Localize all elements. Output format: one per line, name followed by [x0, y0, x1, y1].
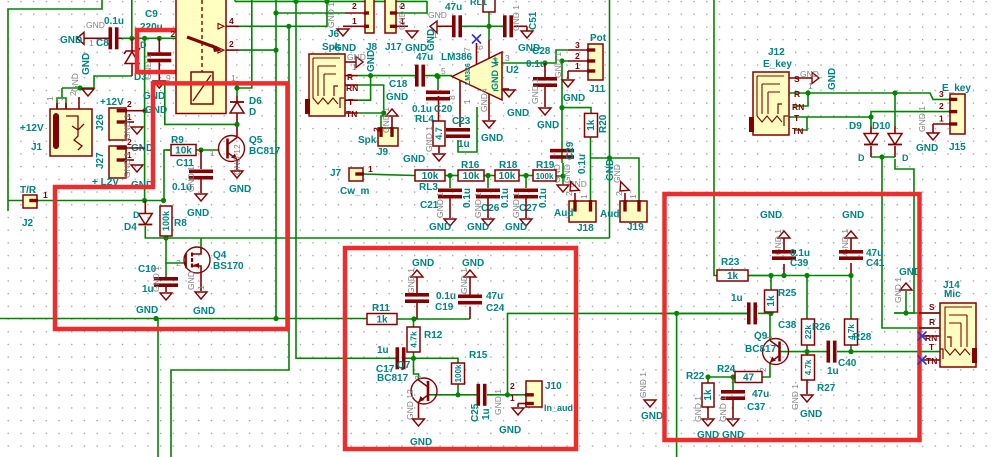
capacitor C25	[477, 384, 481, 406]
svg-text:1k: 1k	[766, 295, 777, 307]
junction	[455, 392, 460, 397]
wire Q4 drain	[200, 238, 202, 247]
wire vertical x=296 to C17	[296, 1, 396, 358]
resistor R25	[765, 290, 778, 312]
connector J10 In_aud	[526, 381, 542, 407]
wire main audio bus y=318.5	[0, 318, 367, 320]
wire R20 bottom to J18 pin1	[590, 137, 592, 201]
svg-text:GND 1: GND 1	[459, 268, 469, 294]
svg-text:R11: R11	[372, 303, 390, 314]
junction	[485, 173, 490, 178]
svg-text:R22: R22	[686, 371, 705, 382]
svg-text:2: 2	[510, 381, 515, 391]
svg-text:C25: C25	[470, 403, 481, 422]
wire Spk R to T tie	[358, 76, 370, 101]
svg-text:J10: J10	[545, 381, 562, 392]
wire R20 top feed	[562, 108, 591, 114]
svg-text:R28: R28	[853, 332, 872, 343]
ground at J15 pin1	[927, 133, 939, 140]
svg-text:GND 1: GND 1	[473, 192, 483, 218]
junction	[324, 0, 329, 4]
svg-text:2: 2	[564, 191, 574, 196]
svg-text:1: 1	[510, 393, 515, 403]
diode D4	[144, 201, 146, 214]
wire C19 lead	[416, 303, 418, 319]
capacitor C20	[426, 91, 450, 95]
wire relay pin2 row	[239, 49, 276, 51]
junction	[411, 356, 416, 361]
svg-text:3: 3	[575, 40, 580, 50]
svg-text:J9: J9	[377, 147, 389, 158]
svg-text:100k: 100k	[161, 210, 171, 231]
svg-text:BC817: BC817	[745, 344, 777, 355]
svg-text:R25: R25	[778, 288, 797, 299]
svg-text:1u: 1u	[458, 139, 470, 150]
junction	[879, 154, 884, 159]
junction	[542, 60, 547, 65]
capacitor C40	[827, 341, 831, 363]
svg-text:R12: R12	[424, 330, 443, 341]
connector J26	[109, 108, 126, 140]
no-connect Mic TN	[923, 359, 940, 361]
svg-text:R23: R23	[721, 257, 740, 268]
svg-text:GND 1: GND 1	[638, 372, 648, 398]
wire C37 top	[732, 377, 734, 390]
svg-text:10k: 10k	[422, 171, 439, 182]
svg-text:Q7: Q7	[397, 360, 411, 371]
connector J8	[365, 0, 374, 33]
svg-text:GND: GND	[403, 154, 425, 165]
connector J7 Cw_m	[349, 168, 363, 181]
wire D3 bottom to GND	[94, 76, 132, 88]
wire J15 pin2 to T net	[871, 112, 950, 117]
svg-text:GND: GND	[426, 29, 437, 51]
svg-text:Cw_m: Cw_m	[340, 186, 370, 197]
svg-text:7: 7	[462, 47, 472, 52]
wire J1 pins bracket	[57, 98, 66, 109]
svg-text:GND 1: GND 1	[406, 268, 416, 294]
ground at C10	[160, 293, 172, 300]
svg-text:GND: GND	[800, 69, 819, 79]
svg-text:T: T	[348, 97, 354, 107]
wire LM386 pin6 supply	[488, 26, 490, 40]
svg-text:GND 1: GND 1	[493, 389, 503, 415]
svg-text:3: 3	[939, 89, 944, 99]
svg-text:2: 2	[229, 39, 234, 49]
svg-text:1u: 1u	[377, 345, 389, 356]
svg-text:1u: 1u	[481, 408, 492, 420]
wire D10 top lead	[894, 93, 896, 126]
wire Spk RN to TN tie	[345, 84, 359, 86]
svg-text:4: 4	[229, 16, 234, 26]
resistor RL1	[483, 0, 495, 12]
relay switch arm	[187, 37, 217, 48]
svg-text:1: 1	[352, 16, 357, 26]
svg-text:GND: GND	[412, 258, 434, 269]
wire R26 bottom to R27	[806, 345, 808, 355]
relay pins	[226, 25, 239, 27]
svg-text:5: 5	[441, 66, 446, 76]
svg-text:GND 1: GND 1	[718, 396, 728, 422]
svg-text:T: T	[794, 113, 800, 123]
svg-text:0.1u: 0.1u	[500, 188, 511, 208]
connector J6 ground	[337, 29, 349, 36]
svg-text:C27: C27	[519, 203, 538, 214]
ground at C26	[482, 219, 494, 226]
svg-text:J11: J11	[589, 84, 606, 95]
junction	[142, 108, 147, 113]
svg-text:2: 2	[352, 1, 357, 11]
wire x=251.8 from top to D6 net	[237, 0, 252, 88]
svg-text:GND4: GND4	[479, 88, 489, 112]
svg-text:GND: GND	[760, 210, 782, 221]
svg-text:U2: U2	[506, 65, 519, 76]
wire C10 tap	[165, 263, 167, 277]
svg-text:D: D	[902, 153, 909, 163]
wire E_key R-RN tie	[794, 93, 808, 106]
ground at C29/R19	[557, 185, 569, 192]
svg-text:GND: GND	[186, 271, 196, 290]
capacitor C29	[550, 149, 574, 153]
svg-text:1u: 1u	[731, 293, 743, 304]
svg-text:GND 1: GND 1	[326, 2, 336, 28]
svg-text:GND 1: GND 1	[397, 4, 407, 30]
wire Spk TN row to J9	[345, 112, 359, 114]
svg-text:0.1u: 0.1u	[526, 59, 546, 70]
svg-text:Q5: Q5	[249, 135, 263, 146]
svg-text:1: 1	[764, 335, 774, 340]
svg-text:C28: C28	[532, 46, 551, 57]
wire resistor chain row	[445, 175, 458, 177]
svg-text:−: −	[493, 86, 499, 97]
junction	[768, 311, 773, 316]
ground at J27 pin1	[131, 165, 143, 172]
svg-text:J6: J6	[328, 29, 340, 40]
wire R20 row join	[591, 157, 610, 159]
svg-text:GND 1: GND 1	[530, 78, 540, 104]
resistor R12	[407, 327, 420, 352]
wire top-left corner net	[8, 0, 102, 211]
svg-text:0.1u: 0.1u	[577, 154, 588, 174]
svg-text:1: 1	[575, 61, 580, 71]
ground at J26 pin1	[131, 127, 143, 134]
svg-text:1k: 1k	[586, 119, 597, 131]
svg-text:TN: TN	[926, 356, 937, 366]
svg-text:C18: C18	[389, 79, 408, 90]
svg-text:J19: J19	[627, 222, 644, 233]
svg-text:D9: D9	[849, 121, 862, 132]
svg-text:LM386: LM386	[441, 52, 473, 63]
wire R25 column	[770, 276, 772, 291]
wire E_key T-TN tie	[794, 117, 807, 130]
resistor R8	[160, 206, 172, 236]
wire Q7 collector	[414, 358, 419, 380]
svg-text:R8: R8	[174, 218, 187, 229]
wire C41 lead	[850, 263, 852, 276]
wire J2 row y=200.5	[8, 200, 37, 202]
svg-text:D10: D10	[872, 121, 891, 132]
svg-text:Spk: Spk	[358, 135, 377, 146]
transistor Q7 BC817	[411, 378, 437, 404]
connector J2	[23, 195, 37, 208]
junction	[411, 316, 416, 321]
diode D3 zener	[131, 38, 133, 51]
ground at J18 pin2	[566, 182, 579, 195]
svg-text:J2: J2	[22, 218, 34, 229]
junction	[273, 316, 278, 321]
svg-text:1: 1	[368, 164, 373, 174]
wire Q9 collector	[769, 313, 771, 340]
junction	[234, 85, 239, 90]
wire C25 to J10	[487, 394, 526, 396]
junction	[804, 349, 809, 354]
ground at Q5 emitter	[231, 171, 243, 178]
svg-text:R26: R26	[812, 322, 831, 333]
junction	[293, 0, 298, 4]
svg-text:1: 1	[462, 99, 472, 104]
svg-text:C9: C9	[145, 9, 158, 20]
connector J19 Aud	[620, 201, 647, 222]
svg-text:R27: R27	[817, 383, 836, 394]
svg-text:C29: C29	[565, 141, 576, 160]
wire R15 feed	[414, 358, 459, 363]
svg-text:1: 1	[352, 62, 357, 72]
svg-text:GND 1: GND 1	[122, 152, 132, 178]
svg-text:R: R	[794, 89, 800, 99]
svg-text:GND 1: GND 1	[790, 384, 800, 410]
svg-text:1: 1	[579, 194, 589, 199]
svg-text:J1: J1	[31, 142, 43, 153]
svg-text:GND 1: GND 1	[917, 106, 927, 132]
wire right box input row	[660, 312, 748, 314]
svg-text:S: S	[929, 302, 935, 312]
wire vertical x=676 to bottom edge	[676, 313, 678, 457]
junction	[848, 273, 853, 278]
svg-text:GND 1: GND 1	[186, 166, 196, 192]
wire R26 top	[806, 276, 808, 320]
wire C51 right to GND	[514, 25, 527, 27]
svg-text:0.1u: 0.1u	[436, 291, 456, 302]
svg-text:10k: 10k	[499, 171, 516, 182]
svg-text:GND: GND	[193, 306, 215, 317]
junction	[273, 10, 278, 15]
svg-text:RN: RN	[346, 83, 358, 93]
highlight box right (mic amp)	[665, 194, 920, 440]
svg-text:GND: GND	[916, 143, 938, 154]
svg-text:100k: 100k	[454, 364, 463, 382]
svg-text:GND: GND	[842, 210, 864, 221]
connector J1 barrel jack	[50, 109, 92, 156]
svg-text:GND: GND	[537, 120, 559, 131]
wire Q9 emitter to R24	[762, 363, 770, 378]
capacitor C19	[405, 293, 429, 297]
svg-text:1: 1	[196, 285, 206, 290]
resistor R20	[585, 113, 598, 137]
wire J17 pin2 to top bus	[396, 1, 427, 13]
op-amp U2 LM386	[452, 52, 502, 100]
capacitor C26	[476, 189, 500, 193]
junction	[161, 198, 166, 203]
svg-text:C19: C19	[435, 302, 454, 313]
svg-text:Aud: Aud	[554, 208, 573, 219]
junction	[435, 74, 440, 79]
svg-text:GND 1: GND 1	[553, 52, 563, 78]
resistor R28	[845, 319, 858, 345]
svg-text:GND: GND	[505, 222, 527, 233]
transistor Q9 BC817	[763, 339, 789, 365]
svg-text:1k: 1k	[727, 271, 739, 282]
svg-text:T: T	[929, 342, 935, 352]
capacitor C27	[514, 189, 538, 193]
wire LM386 pin8 to C23	[459, 80, 461, 127]
svg-text:GND: GND	[386, 92, 408, 103]
svg-text:GND 12: GND 12	[405, 389, 415, 420]
svg-text:47u: 47u	[445, 2, 462, 13]
junction	[781, 273, 786, 278]
svg-text:4.7k: 4.7k	[409, 331, 419, 348]
wire R12 column	[413, 319, 415, 327]
svg-text:GND: GND	[499, 425, 521, 436]
jack J12-spk (Spk input jack)	[309, 54, 345, 116]
wire coil pin1 / D6 top	[213, 82, 226, 84]
svg-text:GND: GND	[429, 222, 451, 233]
svg-text:GND 1: GND 1	[435, 192, 445, 218]
svg-text:RL4: RL4	[415, 114, 434, 125]
ground at C21	[444, 219, 456, 226]
wire vertical x=714 from top to R23	[714, 0, 717, 276]
relay coil	[191, 72, 213, 104]
ground at R27	[801, 395, 813, 402]
ground at Q4 source	[195, 292, 207, 299]
svg-text:2: 2	[575, 51, 580, 61]
connector J18 Aud	[569, 201, 596, 222]
junction	[273, 48, 278, 53]
svg-text:BC817: BC817	[249, 146, 281, 157]
junction	[77, 85, 82, 90]
resistor R26	[802, 319, 815, 345]
svg-text:C37: C37	[747, 402, 766, 413]
svg-text:R15: R15	[469, 350, 488, 361]
svg-text:D4: D4	[124, 222, 137, 233]
svg-text:GND: GND	[81, 53, 92, 75]
svg-text:0.1u: 0.1u	[538, 188, 549, 208]
ground at C9	[153, 81, 165, 88]
svg-text:J17: J17	[385, 42, 402, 53]
svg-text:BS170: BS170	[213, 261, 244, 272]
wire RL1 bottom	[488, 12, 490, 26]
svg-text:RL3: RL3	[419, 182, 438, 193]
svg-text:C39: C39	[790, 258, 809, 269]
svg-text:GND: GND	[462, 258, 484, 269]
junction	[560, 173, 565, 178]
svg-text:TN: TN	[346, 109, 357, 119]
wire R9 to Q5 base	[196, 149, 219, 151]
ground at J10 pin1	[512, 408, 524, 415]
wire top bus y=1.4	[235, 0, 427, 2]
junction	[234, 122, 239, 127]
svg-text:T/R: T/R	[20, 185, 37, 196]
junction	[559, 105, 564, 110]
svg-text:GND: GND	[229, 184, 251, 195]
svg-text:R: R	[347, 72, 353, 82]
svg-text:4.7k: 4.7k	[804, 359, 813, 375]
relay K1 body	[176, 0, 226, 114]
svg-text:GND 1: GND 1	[893, 277, 903, 303]
svg-text:Mic: Mic	[944, 289, 961, 300]
junction	[705, 374, 710, 379]
svg-text:1u: 1u	[827, 366, 839, 377]
junction	[153, 316, 158, 321]
junction	[447, 173, 452, 178]
svg-text:10k: 10k	[463, 171, 480, 182]
wire relay coil pin9 down	[165, 83, 237, 124]
junction	[129, 36, 134, 41]
wire R11 output row	[397, 318, 470, 320]
LM386 pin4 ground	[488, 94, 490, 120]
svg-text:C24: C24	[486, 303, 505, 314]
wire Q7 base row to C25	[458, 394, 477, 396]
junction	[892, 90, 897, 95]
wire J8 pin2	[276, 12, 345, 14]
wire J19 branch	[610, 158, 640, 207]
svg-text:1: 1	[808, 81, 813, 91]
ground at C8 (left arrow)	[77, 32, 84, 44]
svg-text:C20: C20	[434, 104, 453, 115]
svg-text:2: 2	[614, 191, 624, 196]
wire chain tap C27	[525, 176, 527, 189]
wire R15 to Q7 base row	[428, 384, 458, 395]
wire chain tap C21	[449, 176, 451, 189]
no-connect Mic RN	[923, 335, 940, 337]
ground at C27	[520, 219, 532, 226]
wire C17 row	[404, 357, 414, 359]
svg-text:GND 1: GND 1	[511, 192, 521, 218]
junction	[674, 311, 679, 316]
svg-text:E_key: E_key	[942, 83, 971, 94]
jack Spk pin S ground	[345, 61, 356, 63]
wire Q9 base row	[780, 351, 828, 353]
junction	[523, 173, 528, 178]
wire vertical x=276 long	[275, 0, 277, 319]
junction	[381, 110, 386, 115]
svg-text:C51: C51	[528, 11, 539, 30]
svg-text:3: 3	[505, 53, 510, 63]
svg-text:100k: 100k	[536, 172, 554, 181]
ground at J17 pin1	[406, 31, 418, 38]
svg-text:4.7: 4.7	[434, 127, 444, 140]
svg-text:RL1: RL1	[470, 0, 487, 7]
wire R27 bottom	[806, 380, 808, 394]
junction	[903, 310, 908, 315]
junction	[368, 73, 373, 78]
svg-text:1: 1	[43, 190, 48, 200]
svg-text:GND: GND	[800, 409, 822, 420]
capacitor C51	[503, 15, 507, 37]
junction	[434, 73, 439, 78]
svg-text:2: 2	[176, 258, 181, 268]
svg-text:J26: J26	[95, 114, 106, 131]
svg-text:BC817: BC817	[377, 373, 409, 384]
junction	[768, 273, 773, 278]
wire Mic S row	[894, 312, 940, 314]
svg-text:J18: J18	[577, 223, 594, 234]
junction	[157, 36, 162, 41]
svg-text:3: 3	[413, 375, 423, 380]
wire D6 bottom to Q5 collector	[236, 113, 238, 124]
junction	[804, 273, 809, 278]
svg-text:+: +	[493, 58, 499, 69]
wire diode junction down to Mic R	[882, 157, 940, 328]
